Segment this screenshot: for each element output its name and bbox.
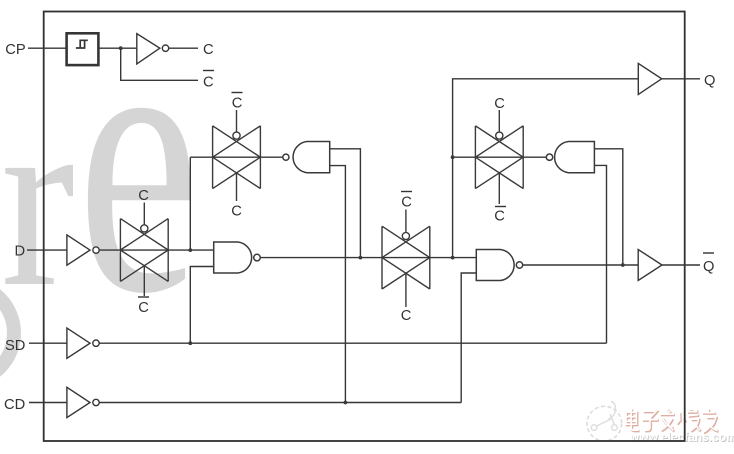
svg-text:CD: CD [4,397,25,413]
svg-text:C: C [494,209,505,225]
svg-text:www.elecfans.com: www.elecfans.com [629,430,734,444]
svg-text:r: r [1,59,75,339]
svg-text:Q: Q [703,259,714,275]
svg-text:C: C [401,308,412,324]
svg-text:e: e [77,0,200,373]
svg-text:Q: Q [704,73,715,89]
svg-text:C: C [231,204,242,220]
svg-text:D: D [15,244,26,260]
svg-text:C: C [138,188,149,204]
svg-text:C: C [232,96,243,112]
svg-text:SD: SD [5,338,25,354]
svg-text:CP: CP [5,42,26,58]
svg-text:C: C [401,195,412,211]
svg-text:C: C [203,74,214,90]
svg-text:C: C [203,42,214,58]
svg-text:C: C [494,96,505,112]
svg-text:C: C [138,300,149,316]
